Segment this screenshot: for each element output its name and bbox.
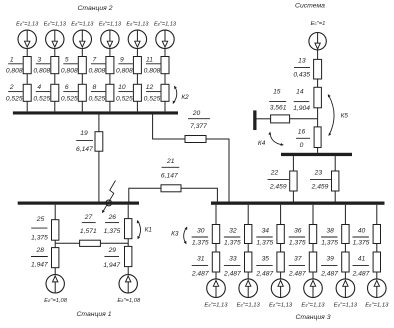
resistor 26 value 1,375 — [125, 219, 132, 239]
resistor 14 value 1,904 — [314, 87, 322, 108]
svg-text:Станция 2: Станция 2 — [78, 5, 113, 12]
svg-text:К1: К1 — [145, 226, 153, 233]
wire — [153, 115, 185, 140]
resistor 21 value 6,147 — [161, 185, 181, 192]
svg-text:15: 15 — [273, 89, 281, 96]
svg-text:Ег″=1,13: Ег″=1,13 — [365, 302, 389, 308]
svg-text:К2: К2 — [181, 94, 189, 101]
svg-text:0,808: 0,808 — [61, 68, 78, 75]
resistor 37 value 2,487 — [309, 252, 316, 272]
svg-text:30: 30 — [197, 227, 205, 234]
svg-text:40: 40 — [358, 227, 366, 234]
wire — [215, 244, 217, 253]
wire — [280, 272, 282, 279]
wire — [109, 74, 111, 85]
svg-text:0,808: 0,808 — [89, 68, 106, 75]
wire — [334, 156, 336, 171]
wire — [317, 148, 319, 153]
svg-text:12: 12 — [146, 84, 154, 91]
resistor 2 value 0,525 — [23, 84, 31, 101]
svg-text:6,147: 6,147 — [76, 146, 93, 153]
svg-text:4: 4 — [37, 84, 41, 91]
svg-text:1,375: 1,375 — [31, 234, 48, 241]
svg-text:32: 32 — [229, 227, 237, 234]
wire — [290, 118, 318, 120]
resistor 11 value 0,808 — [161, 57, 169, 74]
svg-text:0,525: 0,525 — [61, 95, 78, 102]
terminal bar K4 node — [253, 110, 256, 130]
wire — [109, 49, 111, 57]
wire — [54, 205, 56, 220]
wire — [164, 101, 166, 111]
fault point circle — [106, 200, 112, 206]
resistor 1 value 0,808 — [23, 57, 31, 74]
svg-text:Ег″=1,13: Ег″=1,13 — [71, 21, 94, 27]
wire — [54, 74, 56, 85]
svg-text:6: 6 — [65, 84, 69, 91]
svg-text:0,808: 0,808 — [6, 68, 23, 75]
svg-text:6,147: 6,147 — [161, 172, 178, 179]
svg-text:14: 14 — [296, 89, 304, 96]
svg-text:К4: К4 — [258, 140, 266, 147]
svg-text:Ег″=1,08: Ег″=1,08 — [44, 298, 68, 304]
svg-text:25: 25 — [36, 216, 45, 223]
bus station 2 — [13, 111, 178, 114]
resistor 25 value 1,375 — [52, 220, 59, 241]
svg-text:5: 5 — [65, 56, 69, 63]
resistor 6 value 0,525 — [78, 84, 86, 101]
fault K3 arrow — [184, 227, 187, 243]
svg-text:Система: Система — [295, 3, 325, 10]
resistor 4 value 0,525 — [51, 84, 59, 101]
svg-text:23: 23 — [314, 170, 323, 177]
wire — [317, 50, 319, 60]
wire — [312, 272, 314, 279]
svg-text:1,375: 1,375 — [224, 240, 241, 247]
generator G2 station1 Ег"=1,08 — [119, 275, 137, 293]
wire — [280, 205, 282, 225]
svg-text:3,561: 3,561 — [270, 105, 287, 112]
generator G5 station3 Ег"=1,13 — [336, 279, 355, 298]
wire — [109, 101, 111, 111]
wire — [127, 205, 129, 219]
svg-text:28: 28 — [35, 247, 44, 254]
svg-text:0,435: 0,435 — [293, 72, 310, 79]
resistor 29 value 1,947 — [125, 246, 132, 266]
wire — [292, 156, 294, 171]
svg-text:2,487: 2,487 — [320, 271, 338, 278]
wire — [129, 188, 161, 201]
wire — [54, 268, 56, 275]
svg-text:0,525: 0,525 — [33, 95, 50, 102]
wire — [26, 74, 28, 85]
wire — [98, 151, 100, 201]
wire — [26, 49, 28, 57]
svg-text:7,377: 7,377 — [190, 123, 207, 130]
svg-text:1,375: 1,375 — [104, 228, 121, 235]
svg-text:Станция 3: Станция 3 — [296, 314, 331, 321]
resistor 22 value 2,459 — [290, 171, 297, 191]
wire — [181, 188, 217, 201]
wire — [312, 244, 314, 253]
svg-text:2,487: 2,487 — [288, 271, 306, 278]
svg-text:Ес″=1: Ес″=1 — [311, 21, 326, 27]
svg-text:1,571: 1,571 — [80, 228, 97, 235]
resistor 19 value 6,147 — [95, 132, 103, 152]
svg-text:Ег″=1,13: Ег″=1,13 — [301, 302, 325, 308]
svg-text:7: 7 — [93, 56, 97, 63]
wire — [376, 272, 378, 279]
svg-text:Ег″=1,13: Ег″=1,13 — [44, 21, 67, 27]
wire — [127, 239, 129, 247]
fault K5 arrow — [329, 95, 334, 135]
wire — [136, 49, 138, 57]
svg-text:1,947: 1,947 — [103, 262, 120, 269]
wire — [247, 272, 249, 279]
wire — [247, 244, 249, 253]
svg-text:22: 22 — [270, 170, 279, 177]
resistor 3 value 0,808 — [51, 57, 59, 74]
svg-text:К3: К3 — [171, 230, 179, 237]
svg-text:31: 31 — [197, 256, 205, 263]
wire — [81, 49, 83, 57]
svg-text:41: 41 — [358, 256, 366, 263]
resistor 27 value 1,571 — [55, 242, 79, 244]
resistor 13 value 0,435 — [314, 59, 322, 79]
svg-text:20: 20 — [192, 110, 201, 117]
wire — [280, 244, 282, 253]
svg-text:Ег″=1,13: Ег″=1,13 — [16, 21, 39, 27]
svg-text:2,487: 2,487 — [223, 271, 241, 278]
resistor 23 value 2,459 — [332, 171, 339, 191]
svg-text:29: 29 — [108, 247, 117, 254]
svg-text:1,904: 1,904 — [293, 105, 310, 112]
wire — [54, 240, 56, 247]
svg-text:Станция 1: Станция 1 — [77, 311, 112, 318]
generator G2 station3 Ег"=1,13 — [239, 279, 258, 298]
svg-text:2,487: 2,487 — [352, 271, 370, 278]
svg-text:35: 35 — [262, 256, 270, 263]
wire — [81, 101, 83, 111]
wire — [312, 205, 314, 225]
svg-text:0,808: 0,808 — [144, 68, 161, 75]
generator G1 station1 Ег"=1,08 — [46, 275, 64, 293]
svg-text:Ег″=1,13: Ег″=1,13 — [269, 302, 293, 308]
wire — [81, 74, 83, 85]
svg-text:36: 36 — [294, 227, 302, 234]
resistor 9 value 0,808 — [133, 57, 141, 74]
svg-text:Ег″=1,13: Ег″=1,13 — [154, 21, 177, 27]
generator G6 station3 Ег"=1,13 — [368, 279, 387, 298]
svg-text:10: 10 — [118, 84, 126, 91]
resistor 12 value 0,525 — [161, 84, 169, 101]
generator G4 station3 Ег"=1,13 — [304, 279, 323, 298]
svg-text:1,375: 1,375 — [353, 240, 370, 247]
bus station 3 — [211, 202, 385, 205]
resistor 10 value 0,525 — [133, 84, 141, 101]
svg-text:1,375: 1,375 — [289, 240, 306, 247]
svg-text:Ег″=1,08: Ег″=1,08 — [117, 298, 141, 304]
wire — [247, 205, 249, 225]
resistor 31 value 2,487 — [212, 252, 219, 272]
svg-text:2,487: 2,487 — [191, 271, 209, 278]
wire — [257, 118, 271, 120]
wire — [317, 79, 319, 87]
wire — [317, 108, 319, 127]
wire — [164, 49, 166, 57]
fault K4 arrow — [270, 133, 283, 145]
wire — [344, 244, 346, 253]
generator G1 station3 Ег"=1,13 — [207, 279, 226, 298]
resistor 30 value 1,375 — [212, 225, 219, 244]
resistor 34 value 1,375 — [277, 225, 284, 244]
wire — [54, 101, 56, 111]
wire — [127, 267, 129, 275]
wire — [344, 205, 346, 225]
generator G3 station3 Ег"=1,13 — [271, 279, 290, 298]
svg-text:0,808: 0,808 — [33, 68, 50, 75]
resistor 20 value 7,377 — [185, 136, 206, 143]
svg-text:39: 39 — [326, 256, 334, 263]
resistor 28 value 1,947 — [52, 248, 59, 268]
svg-text:38: 38 — [326, 227, 334, 234]
svg-text:33: 33 — [229, 256, 237, 263]
wire — [26, 101, 28, 111]
wire — [376, 244, 378, 253]
svg-text:19: 19 — [80, 130, 88, 137]
svg-text:9: 9 — [120, 56, 124, 63]
bus station 1 — [18, 202, 139, 205]
svg-text:1,375: 1,375 — [256, 240, 273, 247]
wire — [376, 205, 378, 225]
svg-text:0,525: 0,525 — [6, 95, 23, 102]
resistor 36 value 1,375 — [309, 225, 316, 244]
wire — [164, 74, 166, 85]
svg-text:Ег″=1,13: Ег″=1,13 — [99, 21, 122, 27]
short-circuit lightning arrow — [103, 181, 115, 212]
wire — [136, 74, 138, 85]
svg-text:1,375: 1,375 — [321, 240, 338, 247]
svg-text:1,375: 1,375 — [192, 240, 209, 247]
fault K1 arrow — [138, 221, 141, 239]
resistor 41 value 2,487 — [373, 252, 380, 272]
fault K2 arrow — [173, 86, 177, 103]
resistor 16 value 0 — [314, 127, 321, 148]
wire — [206, 139, 229, 202]
svg-text:3: 3 — [37, 56, 41, 63]
wire — [136, 101, 138, 111]
wire — [344, 272, 346, 279]
svg-text:0: 0 — [300, 142, 304, 149]
svg-text:13: 13 — [298, 57, 306, 64]
resistor 5 value 0,808 — [78, 57, 86, 74]
svg-text:2,459: 2,459 — [311, 184, 329, 191]
svg-text:8: 8 — [93, 84, 97, 91]
svg-text:Ег″=1,13: Ег″=1,13 — [204, 302, 228, 308]
svg-text:Ег″=1,13: Ег″=1,13 — [237, 302, 261, 308]
svg-text:37: 37 — [294, 256, 302, 263]
middle bus (system) — [281, 153, 352, 156]
svg-text:0,808: 0,808 — [116, 68, 133, 75]
resistor 8 value 0,525 — [106, 84, 114, 101]
resistor 33 value 2,487 — [245, 252, 252, 272]
resistor 32 value 1,375 — [245, 225, 252, 244]
svg-text:2,459: 2,459 — [269, 184, 287, 191]
svg-text:Ег″=1,13: Ег″=1,13 — [126, 21, 149, 27]
svg-text:0,525: 0,525 — [89, 95, 106, 102]
wire — [54, 49, 56, 57]
svg-text:1,947: 1,947 — [31, 261, 48, 268]
resistor 38 value 1,375 — [342, 225, 349, 244]
svg-text:16: 16 — [298, 129, 306, 136]
svg-text:26: 26 — [108, 214, 117, 221]
resistor 15 value 3,561 — [271, 115, 290, 123]
svg-text:К5: К5 — [341, 113, 349, 120]
resistor 39 value 2,487 — [342, 252, 349, 272]
resistor 35 value 2,487 — [277, 252, 284, 272]
wire — [215, 272, 217, 279]
svg-text:0,525: 0,525 — [116, 95, 133, 102]
svg-text:27: 27 — [84, 214, 93, 221]
resistor 40 value 1,375 — [373, 225, 380, 244]
wire — [98, 115, 100, 132]
svg-text:1: 1 — [10, 56, 14, 63]
svg-text:0,525: 0,525 — [144, 95, 161, 102]
svg-text:11: 11 — [146, 56, 153, 63]
svg-text:2,487: 2,487 — [255, 271, 273, 278]
svg-text:2: 2 — [9, 84, 14, 91]
resistor 7 value 0,808 — [106, 57, 114, 74]
svg-text:Ег″=1,13: Ег″=1,13 — [334, 302, 358, 308]
svg-text:34: 34 — [262, 227, 270, 234]
svg-text:21: 21 — [166, 158, 175, 165]
wire — [215, 205, 217, 225]
